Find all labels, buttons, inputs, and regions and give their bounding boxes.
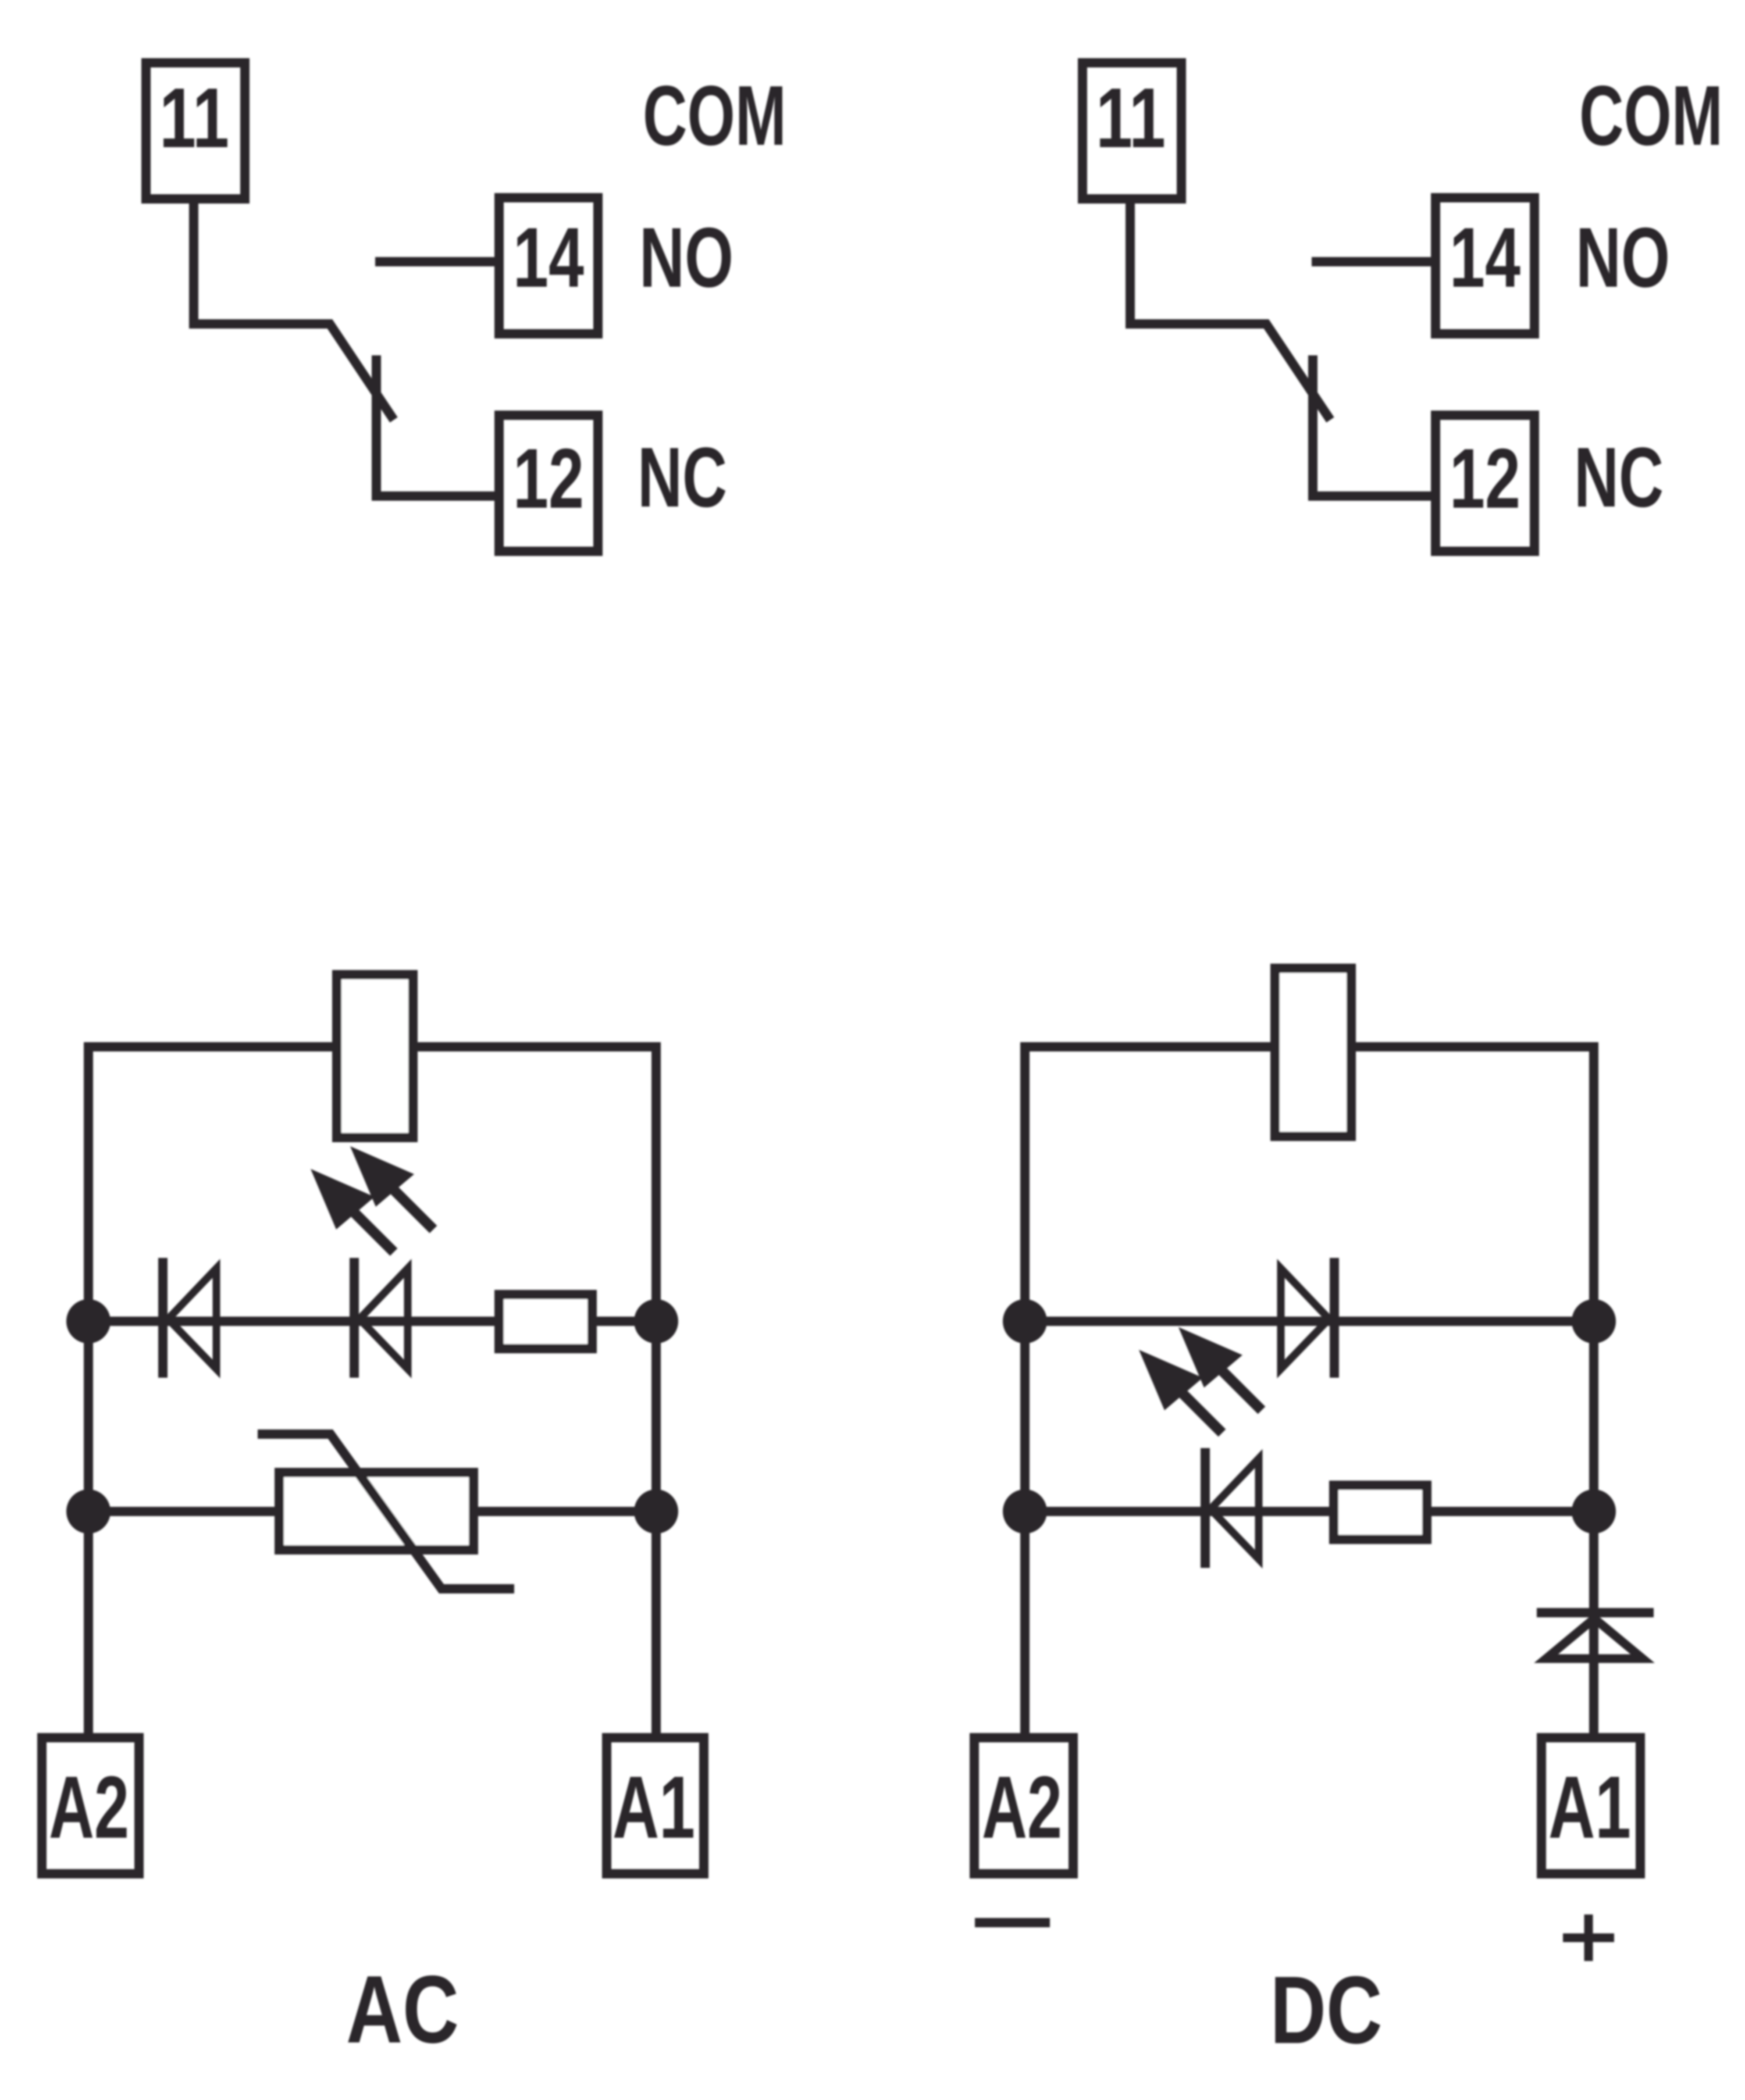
svg-text:NO: NO [1576, 210, 1670, 305]
svg-text:A1: A1 [612, 1758, 695, 1857]
svg-text:DC: DC [1270, 1956, 1383, 2063]
svg-text:11: 11 [159, 70, 229, 165]
svg-text:NC: NC [1574, 430, 1664, 525]
svg-text:COM: COM [1579, 68, 1723, 163]
svg-text:AC: AC [346, 1956, 459, 2063]
svg-text:12: 12 [1450, 431, 1520, 526]
svg-text:14: 14 [1450, 210, 1520, 305]
svg-text:NC: NC [638, 430, 727, 525]
svg-text:A1: A1 [1548, 1758, 1631, 1857]
svg-text:14: 14 [513, 210, 584, 305]
svg-text:COM: COM [643, 68, 786, 163]
svg-text:A2: A2 [49, 1758, 129, 1857]
svg-text:A2: A2 [982, 1758, 1062, 1857]
svg-text:11: 11 [1096, 70, 1166, 165]
svg-text:NO: NO [639, 210, 733, 305]
svg-text:12: 12 [513, 431, 584, 526]
